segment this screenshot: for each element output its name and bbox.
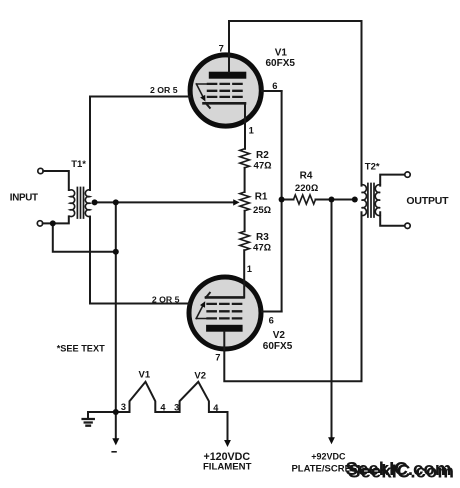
svg-text:*SEE TEXT: *SEE TEXT (57, 344, 105, 354)
junction screen bus R4 (279, 197, 285, 203)
wire screen bus to R4 (282, 199, 294, 201)
wire screen bus vertical (281, 91, 283, 312)
tube V1 grid row 2 (208, 90, 242, 92)
svg-text:25Ω: 25Ω (253, 205, 271, 216)
minus mark (112, 451, 116, 453)
svg-text:6: 6 (272, 80, 277, 91)
svg-text:R4: R4 (300, 171, 313, 182)
svg-text:OUTPUT: OUTPUT (406, 195, 449, 207)
wire V1 pin6 to screen bus (262, 90, 282, 92)
transformer T2 secondary winding (375, 185, 380, 216)
svg-text:1: 1 (247, 263, 252, 274)
junction input ground (50, 220, 56, 226)
svg-text:FILAMENT: FILAMENT (203, 461, 252, 472)
wire V1 cathode pin1 to R2 (244, 103, 246, 149)
wire T2 secondary bottom to output (380, 212, 405, 226)
wire center bus vertical (115, 202, 117, 412)
transformer T1 core (77, 188, 83, 219)
wire minus arrow (115, 412, 117, 439)
arrowhead R1 wiper (233, 199, 239, 205)
wire input bottom to T1 primary (43, 216, 69, 223)
resistor R4 (294, 195, 316, 204)
input terminal bottom (37, 221, 42, 226)
tube V2 plate bar (206, 325, 243, 332)
tube V2 grid row 2 (208, 310, 242, 312)
tube V1 plate bar (209, 72, 247, 79)
wire R2 to R1 (244, 168, 246, 192)
transformer T2 primary winding (362, 185, 367, 216)
svg-text:2 OR 5: 2 OR 5 (152, 294, 180, 304)
svg-text:60FX5: 60FX5 (263, 341, 293, 352)
tube V2 cathode line (206, 296, 243, 299)
wire V2 plate to T2 primary bottom (224, 212, 361, 381)
transformer T1 secondary winding (85, 190, 89, 217)
junction T1 center tap (92, 199, 98, 205)
arrowhead minus (112, 438, 119, 445)
junction T2 center tap (352, 197, 358, 203)
input terminal top (38, 168, 43, 173)
wire input bottom to ground bus (53, 223, 116, 251)
output terminal bottom (405, 223, 410, 228)
wire ground branch (88, 412, 116, 418)
wire filament heaters V1 V2 (116, 382, 228, 441)
svg-text:V2: V2 (194, 370, 206, 381)
wire R1 to R3 (244, 211, 246, 231)
resistor R2 (240, 149, 250, 168)
svg-text:INPUT: INPUT (10, 192, 38, 203)
svg-text:7: 7 (219, 42, 224, 53)
svg-text:+92VDC: +92VDC (311, 451, 346, 461)
ground symbol (83, 419, 94, 426)
tube V2 grid entry mark (196, 293, 214, 319)
svg-text:47Ω: 47Ω (254, 160, 272, 171)
svg-text:V2: V2 (273, 330, 286, 341)
svg-text:7: 7 (215, 352, 220, 363)
svg-text:1: 1 (249, 125, 254, 136)
tube V1 envelope (190, 55, 261, 126)
output terminal top (405, 172, 410, 177)
tube V1 grid row 1 (208, 83, 242, 85)
svg-text:V1: V1 (139, 370, 151, 381)
svg-text:R1: R1 (255, 192, 268, 203)
junction center bus bottom (113, 409, 119, 415)
wire input top to T1 primary (43, 171, 69, 190)
wire T1 secondary top to V1 grid (90, 97, 190, 191)
tube V2 envelope (189, 277, 261, 349)
wire R4 to T2 center tap (316, 199, 356, 201)
transformer T2 core (368, 184, 374, 218)
arrowhead +120V (224, 440, 231, 447)
wire T1 secondary bottom to V2 grid (90, 217, 189, 304)
svg-text:SeekIC.com: SeekIC.com (348, 460, 454, 481)
svg-text:V1: V1 (275, 47, 288, 58)
wire V2 pin6 (262, 311, 282, 313)
svg-text:3: 3 (121, 402, 126, 412)
tube V1 cathode line (204, 102, 246, 105)
svg-text:R3: R3 (256, 232, 269, 243)
svg-text:T1*: T1* (71, 159, 86, 170)
svg-text:6: 6 (269, 314, 274, 325)
svg-text:47Ω: 47Ω (253, 242, 271, 253)
svg-text:4: 4 (213, 403, 219, 413)
arrowhead +92V (328, 437, 335, 444)
tube V2 grid row 1 (208, 303, 242, 305)
svg-text:3: 3 (174, 402, 179, 412)
potentiometer R1 (240, 192, 250, 211)
wire R1 wiper from T1 center tap (94, 201, 234, 203)
tube V2 grid row 3 (208, 317, 242, 319)
junction center bus mid (113, 249, 119, 255)
resistor R3 (240, 231, 250, 250)
wire T2 secondary top to output (380, 175, 405, 186)
svg-text:T2*: T2* (365, 161, 380, 172)
junction center bus top (113, 199, 119, 205)
svg-text:220Ω: 220Ω (295, 183, 318, 194)
svg-text:R2: R2 (256, 150, 269, 161)
wire +92V feed (331, 200, 333, 439)
wire R3 to V2 cathode pin1 (243, 250, 245, 297)
svg-text:60FX5: 60FX5 (266, 58, 296, 69)
svg-text:2 OR 5: 2 OR 5 (150, 85, 178, 95)
junction +92V (329, 197, 335, 203)
tube V1 grid entry mark (196, 84, 214, 108)
wire V1 plate to T2 primary top (229, 21, 362, 186)
tube V1 grid row 3 (208, 96, 242, 98)
transformer T1 primary winding (70, 190, 74, 217)
svg-text:4: 4 (160, 402, 166, 412)
